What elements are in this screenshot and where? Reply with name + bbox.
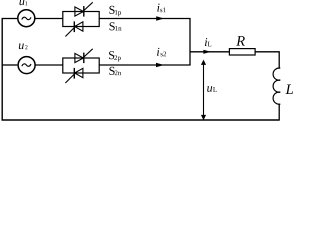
svg-text:u: u: [207, 81, 213, 95]
svg-text:s2: s2: [160, 50, 167, 58]
svg-text:L: L: [207, 40, 211, 48]
svg-text:s1: s1: [160, 6, 167, 14]
svg-text:i: i: [156, 45, 159, 59]
svg-text:2: 2: [25, 45, 28, 51]
svg-text:R: R: [235, 34, 245, 50]
svg-text:1: 1: [25, 1, 28, 7]
svg-text:2n: 2n: [114, 69, 122, 77]
svg-text:L: L: [213, 86, 217, 94]
svg-text:1n: 1n: [115, 25, 123, 33]
svg-text:L: L: [285, 82, 294, 98]
svg-text:1p: 1p: [114, 9, 122, 17]
svg-text:2p: 2p: [114, 54, 122, 62]
svg-text:u: u: [18, 38, 24, 52]
